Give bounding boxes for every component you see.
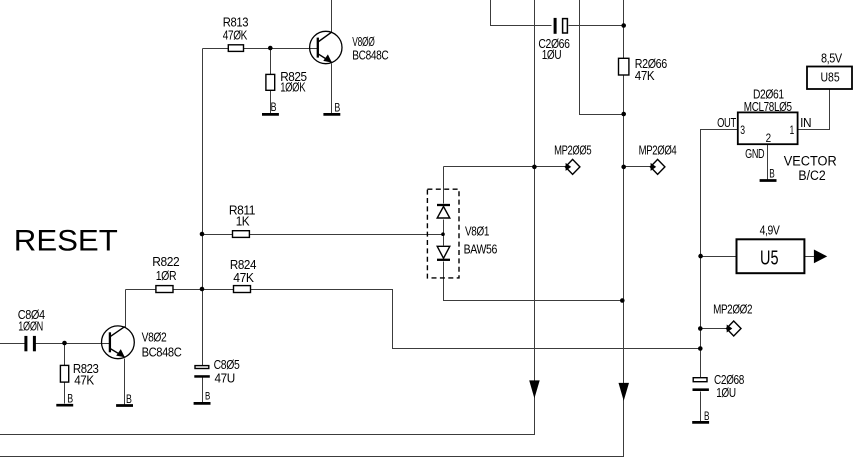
wire (125, 290, 127, 328)
transistor V800 (310, 31, 342, 63)
wire (443, 220, 445, 246)
svg-text:C8Ø5: C8Ø5 (214, 358, 240, 372)
wire (701, 328, 727, 330)
wire (444, 262, 623, 301)
wire (202, 49, 204, 366)
node R811 (200, 232, 205, 237)
wire (126, 289, 156, 291)
svg-text:V8Ø2: V8Ø2 (142, 331, 167, 345)
testpoint MP2004 (650, 159, 665, 174)
node C2066/R2066 (621, 23, 626, 28)
ground V800 (323, 113, 340, 116)
svg-text:C2Ø68: C2Ø68 (714, 373, 744, 387)
svg-text:V8ØØ: V8ØØ (352, 35, 375, 49)
wire (444, 166, 566, 168)
wire (174, 289, 234, 291)
svg-text:MP2ØØ2: MP2ØØ2 (713, 303, 752, 317)
arrow down A (529, 380, 540, 398)
wire (569, 25, 624, 27)
resistor R824 (234, 286, 251, 293)
svg-text:47ØK: 47ØK (223, 29, 248, 43)
ground regulator (760, 179, 777, 182)
wire (203, 48, 229, 50)
svg-text:1K: 1K (236, 215, 251, 229)
svg-text:1ØØK: 1ØØK (280, 81, 306, 95)
svg-text:1ØØN: 1ØØN (18, 319, 43, 333)
testpoint MP2002 (727, 321, 742, 336)
wire (250, 234, 444, 236)
node MP2004 (621, 165, 626, 170)
svg-text:MP2ØØ4: MP2ØØ4 (639, 144, 677, 158)
svg-text:U85: U85 (821, 71, 840, 85)
svg-text:B: B (769, 167, 775, 181)
wire (700, 392, 702, 422)
node MP2002 (698, 326, 703, 331)
wire (64, 344, 66, 366)
svg-text:1: 1 (790, 123, 795, 137)
diode V801a (437, 205, 450, 218)
ground C805 (194, 402, 211, 405)
wire (203, 234, 233, 236)
dashed box V801 (427, 189, 459, 278)
svg-text:BAW56: BAW56 (464, 243, 498, 257)
testpoint MP2005 (565, 159, 580, 174)
svg-text:3: 3 (740, 123, 745, 137)
svg-text:B: B (67, 392, 73, 406)
wire (0, 0, 535, 435)
wire (270, 49, 272, 75)
svg-text:8,5V: 8,5V (821, 52, 843, 66)
node MP2005 (532, 165, 537, 170)
wire (798, 90, 830, 130)
node long rail (698, 346, 703, 351)
svg-text:MP2ØØ5: MP2ØØ5 (554, 144, 592, 158)
svg-text:1ØR: 1ØR (156, 269, 177, 283)
wire (491, 0, 552, 26)
wire (623, 0, 625, 59)
wire (701, 130, 738, 378)
svg-text:IN: IN (800, 116, 811, 130)
svg-text:BC848C: BC848C (352, 49, 388, 63)
svg-text:R822: R822 (152, 255, 179, 269)
wire (0, 343, 25, 345)
ground R825 (262, 113, 279, 116)
wire (251, 290, 701, 349)
wire (331, 0, 333, 33)
wire (767, 145, 769, 180)
diode V801b (437, 246, 450, 259)
svg-text:OUT: OUT (717, 116, 736, 130)
svg-text:1ØU: 1ØU (542, 48, 562, 62)
ground R823 (56, 404, 73, 407)
svg-text:2: 2 (766, 131, 772, 145)
svg-text:R824: R824 (230, 258, 257, 272)
ground C2068 (692, 421, 709, 424)
node R822/R824 (200, 287, 205, 292)
wire (331, 64, 333, 114)
capacitor C2066 (554, 18, 568, 34)
svg-text:4,9V: 4,9V (760, 224, 781, 238)
svg-text:MCL78LØ5: MCL78LØ5 (744, 100, 792, 114)
svg-text:GND: GND (745, 147, 764, 161)
resistor R811 (233, 231, 250, 238)
svg-text:U5: U5 (760, 247, 779, 269)
resistor R813 (228, 45, 243, 52)
svg-text:1ØU: 1ØU (716, 386, 736, 400)
resistor R2066 (619, 58, 629, 75)
node R813/R825/V800 (268, 46, 273, 51)
svg-text:47K: 47K (74, 374, 95, 388)
node V801 mid (441, 232, 445, 236)
svg-text:B: B (126, 392, 132, 406)
resistor R825 (266, 74, 275, 90)
svg-text:B: B (271, 100, 277, 114)
svg-text:47K: 47K (635, 69, 655, 83)
svg-text:47U: 47U (215, 372, 236, 386)
wire (64, 383, 66, 404)
svg-text:B/C2: B/C2 (798, 168, 825, 184)
svg-text:47K: 47K (233, 271, 254, 285)
wire (580, 0, 624, 115)
arrow U5 out (814, 250, 827, 264)
wire (624, 166, 651, 168)
svg-text:BC848C: BC848C (142, 346, 182, 360)
capacitor C2068 (693, 378, 709, 391)
svg-text:B: B (704, 409, 710, 423)
wire (124, 359, 126, 405)
capacitor C805 (194, 366, 210, 378)
svg-text:V8Ø1: V8Ø1 (465, 224, 489, 238)
wire (805, 256, 815, 258)
box U5 (737, 239, 805, 273)
box U85 (807, 67, 852, 90)
node C804/R823 (62, 341, 67, 346)
capacitor C804 (24, 336, 36, 351)
node V801 bottom rail (620, 298, 625, 303)
wire (701, 256, 737, 258)
ground V802 (116, 404, 133, 407)
transistor V802 (102, 326, 135, 359)
resistor R823 (60, 365, 68, 382)
wire (0, 76, 624, 457)
wire (244, 48, 318, 50)
svg-text:RESET: RESET (14, 224, 118, 257)
wire (443, 167, 445, 204)
node U5 in (698, 254, 703, 259)
arrow down B (619, 383, 630, 401)
resistor R822 (156, 286, 173, 293)
node R2066 bottom (621, 112, 626, 117)
wire (270, 91, 272, 114)
svg-text:B: B (205, 391, 210, 403)
svg-text:R813: R813 (223, 15, 249, 29)
box regulator D2061 (738, 112, 798, 144)
wire (202, 378, 204, 403)
wire (36, 343, 110, 345)
svg-text:B: B (334, 101, 340, 115)
